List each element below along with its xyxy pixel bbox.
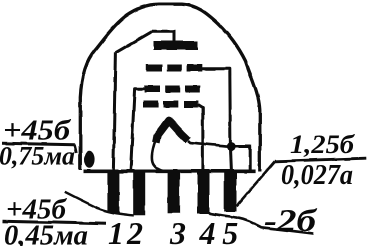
pin 4 <box>198 170 210 214</box>
svg-text:-2б: -2б <box>264 202 318 238</box>
tube base line <box>84 170 256 174</box>
svg-text:2: 2 <box>126 215 143 246</box>
leader rule +45b/0,45ma <box>3 221 107 224</box>
side terminal blob <box>84 150 95 168</box>
pin 3 <box>168 170 180 214</box>
svg-text:3: 3 <box>169 215 186 246</box>
wire grid1 to pin 5 <box>201 69 231 171</box>
svg-text:1: 1 <box>108 215 124 246</box>
svg-text:0,027а: 0,027а <box>281 160 353 191</box>
leader pin4 to -2b underline <box>209 213 314 233</box>
wire filament right to node <box>188 141 231 147</box>
leader drop to side terminal <box>75 145 77 153</box>
svg-text:0,45ма: 0,45ма <box>4 220 88 246</box>
leader rule +45b/0,75ma <box>2 143 75 145</box>
pin 1 <box>107 170 119 213</box>
pin 5 <box>224 170 237 212</box>
grid row 2 dashes <box>145 86 200 93</box>
anode plate <box>154 41 199 50</box>
leader pin5 to 1,25b <box>237 161 275 206</box>
tube envelope <box>80 4 259 171</box>
wire grid2 to pin 2 <box>131 89 145 171</box>
grid row 1 dashes <box>146 65 202 72</box>
wire anode stub up <box>172 31 175 43</box>
svg-text:0,75ма: 0,75ма <box>0 141 75 170</box>
wire anode to pin 1 <box>113 53 115 170</box>
leader 0,45ma to pin 2 <box>65 192 134 216</box>
grid row 3 dashes <box>143 101 198 108</box>
node junction dot <box>227 142 236 151</box>
wire anode top run <box>153 30 176 33</box>
wire node to base <box>231 147 250 172</box>
svg-text:1,25б: 1,25б <box>290 130 355 159</box>
wire grid3 to pin 4 <box>198 105 203 172</box>
svg-text:4: 4 <box>199 215 216 246</box>
leader rule 1,25b/0,027a <box>275 158 367 161</box>
svg-text:5: 5 <box>222 215 238 246</box>
pin 2 <box>133 170 145 216</box>
filament <box>156 120 188 142</box>
wire anode diagonal <box>115 31 152 53</box>
wire filament left to pin 3 <box>152 141 166 171</box>
